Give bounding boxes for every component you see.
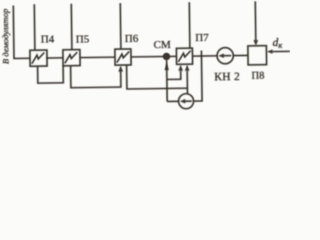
wire: main line П7-КН2 bbox=[192, 55, 217, 57]
mixer node СМ (junction dot) bbox=[163, 53, 171, 61]
arrowhead inside bottom circle bbox=[180, 99, 185, 103]
arrowhead inside КН2 bbox=[218, 53, 224, 58]
wire: main line П6-СМ-П7 bbox=[131, 55, 176, 58]
wire: main line П4-П5 bbox=[46, 57, 63, 59]
arrowhead into П7 bottom-right bbox=[185, 64, 190, 70]
wire: tap junction vertical down to circle-right bbox=[193, 51, 202, 102]
wire: external input d_k into П8 (from right edge) bbox=[272, 50, 290, 52]
block П6 bbox=[115, 49, 131, 65]
feedback: bottom bus П6 to П7/circle bbox=[127, 64, 188, 89]
node: output to demodulator (left vertical wire) bbox=[13, 5, 30, 58]
arrowhead into П7 bottom-left bbox=[178, 64, 183, 70]
svg-text:П5: П5 bbox=[76, 33, 90, 45]
switch КН2 (circle with left arrow) bbox=[217, 47, 233, 63]
background paper bbox=[0, 0, 290, 116]
feedback: bottom link П4 to П5 bbox=[38, 66, 64, 83]
svg-text:П7: П7 bbox=[195, 32, 209, 44]
wire: top input into P5 bbox=[70, 4, 73, 50]
wire: branch to П7 bottom-left arrow bbox=[167, 71, 181, 80]
svg-text:В демодулятор: В демодулятор bbox=[0, 8, 11, 64]
wire: top input into P8 (with down arrow) bbox=[254, 1, 257, 40]
phase unit (circle with left arrow, bottom) bbox=[178, 94, 193, 109]
feedback: bottom link П5 to П6 (arrow into П6) bbox=[71, 65, 121, 88]
arrowhead into СМ from below bbox=[164, 63, 168, 70]
block П7 bbox=[176, 48, 192, 64]
wire: main line КН2-П8 bbox=[233, 54, 248, 56]
arrowhead into П6 bottom bbox=[118, 65, 123, 71]
wire: circle-left horizontal bbox=[167, 100, 179, 102]
arrowhead into П8 top bbox=[253, 40, 258, 46]
wire: main line П5-П6 bbox=[80, 56, 115, 58]
block П4 bbox=[30, 50, 47, 66]
svg-text:П4: П4 bbox=[41, 33, 55, 45]
svg-text:СМ: СМ bbox=[154, 39, 171, 51]
svg-text:КН 2: КН 2 bbox=[214, 71, 240, 83]
wire: top input into P4 bbox=[33, 4, 36, 50]
wire: vertical from circle top to П7 bottom (arrow into П7) bbox=[186, 71, 188, 94]
wire: top input into P7 bbox=[188, 2, 191, 48]
wire: top input into P6 bbox=[119, 3, 122, 49]
block П5 bbox=[63, 50, 80, 66]
block П8 bbox=[248, 46, 267, 65]
arrowhead of d_k wire into П8 bbox=[267, 49, 273, 53]
svg-text:П8: П8 bbox=[251, 70, 264, 81]
svg-text:П6: П6 bbox=[125, 33, 139, 45]
wire: vertical from circle-left up to СМ (arrow into СМ) bbox=[166, 60, 169, 101]
